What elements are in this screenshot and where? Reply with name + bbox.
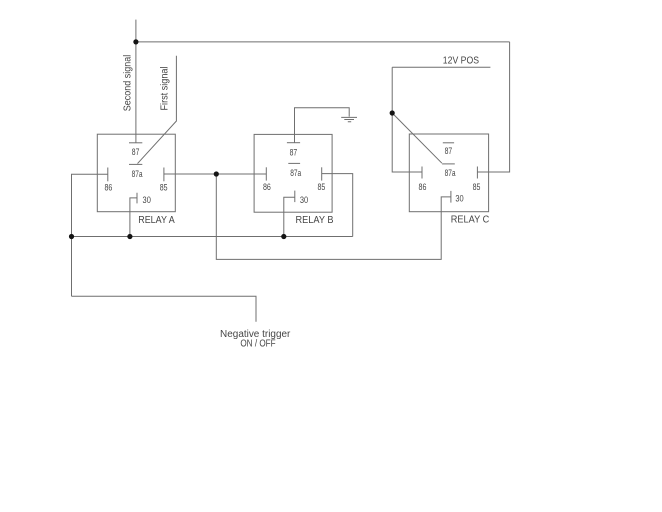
svg-text:30: 30 [143,195,151,205]
wire relay B pin 85 loop to bottom bus [322,174,353,237]
relay C pin 30 bar [450,191,452,203]
svg-text:86: 86 [419,182,427,192]
wire relay B pin 87 to ground [295,108,350,143]
wire junction down and across to relay C pin 30 [216,174,451,259]
junction dot 12V POS / relay C arm [390,110,395,115]
svg-text:RELAY A: RELAY A [138,215,175,226]
relay A pin 87a bar [129,163,142,165]
relay B box [254,134,332,212]
svg-text:87: 87 [290,148,298,158]
svg-text:87: 87 [445,146,453,156]
relay C pin 87 bar [443,142,454,144]
svg-text:RELAY C: RELAY C [451,215,490,226]
relay A pin 30 bar [136,193,138,204]
wire relay B pin 30 down [284,197,295,236]
svg-text:86: 86 [263,182,271,192]
junction dot relay B 30 / bottom bus [281,234,286,239]
relay B pin 87a bar [288,162,300,164]
junction dot second signal / top bus [133,39,138,44]
wire Second signal vertical into relay A pin 87 [135,20,137,143]
junction dot relay A 30 / bottom bus [127,234,132,239]
relay A pin 86 bar [107,168,109,182]
svg-text:Second signal: Second signal [122,55,133,112]
svg-text:87a: 87a [445,168,456,178]
wire bottom bus [72,236,353,238]
wire First signal with diagonal switch arm into relay A [138,56,177,164]
wire negative trigger lead [72,296,257,322]
wire 12V POS line [392,66,490,68]
svg-text:86: 86 [104,183,112,193]
svg-text:First signal: First signal [160,67,171,111]
wire relay A pin 85 to relay B pin 86 [164,173,266,175]
wire top bus from Second signal junction to right [136,41,510,43]
svg-text:RELAY B: RELAY B [296,215,334,226]
relay C pin 85 bar [476,167,478,179]
relay A box [97,134,175,212]
svg-text:87a: 87a [132,169,143,179]
junction dot bottom bus left [69,234,74,239]
svg-text:ON / OFF: ON / OFF [240,338,275,349]
wire relay A pin 86 to left, down [72,174,108,296]
svg-text:87: 87 [132,147,140,157]
relay C box [409,134,488,212]
junction dot relay A 85 / relay B 86 [214,171,219,176]
wire diagonal switch arm relay C [392,113,442,163]
relay A pin 87 bar [129,142,142,144]
relay B pin 85 bar [321,167,323,180]
relay B pin 87 bar [287,142,300,144]
svg-text:85: 85 [318,182,326,192]
svg-text:30: 30 [455,194,463,204]
wire right vertical down to relay C pin 85 [477,42,509,172]
relay A pin 85 bar [163,168,165,182]
relay C pin 87a bar [442,163,455,165]
relay B pin 30 bar [294,191,296,203]
svg-text:30: 30 [300,195,308,205]
relay C pin 86 bar [421,167,423,179]
wire relay A pin 30 down [130,198,137,237]
relay B pin 86 bar [265,167,267,180]
svg-text:87a: 87a [290,168,301,178]
svg-text:12V POS: 12V POS [443,56,479,67]
svg-text:85: 85 [473,182,481,192]
wire 12V POS down to relay C pin 86 [392,67,422,172]
ground [341,117,357,121]
svg-text:85: 85 [160,183,168,193]
